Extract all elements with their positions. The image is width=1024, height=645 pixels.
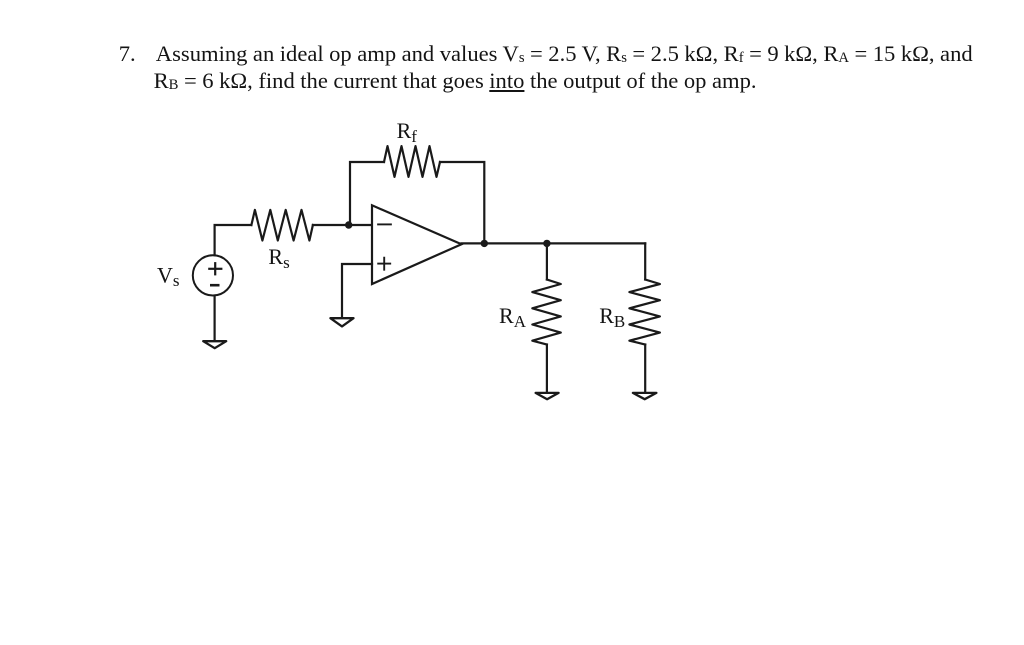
wire Rs to op-amp inverting input bbox=[313, 224, 372, 226]
ground non-inverting input bbox=[330, 318, 353, 326]
op-amp U1 bbox=[372, 205, 462, 284]
ground RB bbox=[633, 393, 657, 399]
ground Vs bbox=[203, 341, 226, 348]
resistor RB bbox=[629, 280, 660, 345]
label Rf bbox=[397, 118, 418, 146]
label Rs bbox=[268, 244, 289, 272]
node output bbox=[481, 240, 488, 247]
wire feedback left vertical bbox=[350, 162, 384, 225]
wire non-inverting input to ground bbox=[342, 264, 372, 317]
voltage source Vs bbox=[193, 255, 233, 295]
resistor RA bbox=[532, 280, 561, 345]
svg-text:Rs: Rs bbox=[268, 244, 289, 272]
node inverting input bbox=[345, 221, 352, 228]
svg-text:RB: RB bbox=[599, 303, 625, 331]
wire feedback right vertical to output bbox=[440, 162, 484, 243]
svg-text:RA: RA bbox=[499, 303, 527, 331]
resistor Rf bbox=[384, 146, 440, 177]
ground RA bbox=[536, 393, 559, 399]
node RA branch bbox=[543, 240, 550, 247]
wire RA to ground bbox=[546, 345, 548, 392]
wire Vs top to Rs bbox=[215, 225, 252, 255]
problem text line 1 bbox=[119, 43, 136, 66]
wire RB to ground bbox=[644, 345, 646, 392]
label RA bbox=[499, 303, 527, 331]
wire RB branch down bbox=[644, 243, 646, 279]
label Vs bbox=[157, 262, 180, 290]
problem text line 2 bbox=[154, 70, 757, 96]
wire Vs bottom to ground bbox=[214, 296, 216, 340]
label RB bbox=[599, 303, 625, 331]
wire op-amp output bbox=[462, 242, 646, 244]
resistor Rs bbox=[251, 210, 313, 241]
wire RA branch down bbox=[546, 243, 548, 279]
svg-text:Vs: Vs bbox=[157, 262, 180, 290]
svg-text:Rf: Rf bbox=[397, 118, 418, 146]
